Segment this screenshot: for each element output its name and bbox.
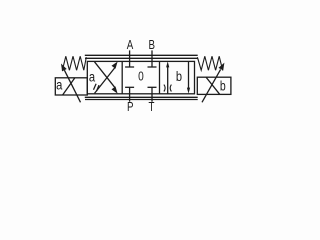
port P line (129, 87, 131, 101)
svg-text:P: P (127, 101, 133, 114)
port A line (129, 50, 131, 67)
position b orifice )( (164, 85, 172, 92)
position a crossed arrow P-B (95, 62, 118, 94)
proportional arrow b head (219, 63, 225, 71)
port P closed T-bar (125, 86, 134, 88)
position b straight arrow up P-A (166, 61, 169, 93)
proportional arrow a shaft (64, 70, 80, 102)
svg-text:A: A (127, 39, 134, 52)
position a throttle slashes (94, 84, 100, 91)
svg-text:0: 0 (138, 69, 144, 83)
svg-text:B: B (148, 39, 154, 52)
port B closed T-bar (148, 66, 157, 68)
solenoid box a (55, 78, 87, 95)
port T line (151, 87, 153, 101)
proportional arrow a head (61, 64, 67, 72)
svg-text:b: b (220, 78, 226, 94)
proportional marking top double line (85, 55, 198, 58)
solenoid a diagonal (63, 78, 75, 95)
proportional arrow b shaft (202, 69, 221, 102)
port T closed T-bar (148, 86, 157, 88)
spring right (197, 56, 222, 70)
svg-text:a: a (56, 77, 63, 92)
valve envelope (3 squares) (87, 61, 194, 93)
svg-text:a: a (89, 69, 96, 84)
solenoid b diagonal (206, 77, 219, 94)
position b straight arrow down B-T (187, 61, 190, 93)
port B line (151, 50, 153, 67)
position a crossed arrow A-T (95, 62, 118, 94)
port A closed T-bar (125, 66, 134, 68)
proportional marking bottom double line (85, 97, 198, 99)
solenoid box b (197, 77, 231, 94)
svg-text:b: b (176, 68, 182, 85)
svg-text:T: T (149, 101, 155, 114)
spring left (62, 56, 86, 70)
